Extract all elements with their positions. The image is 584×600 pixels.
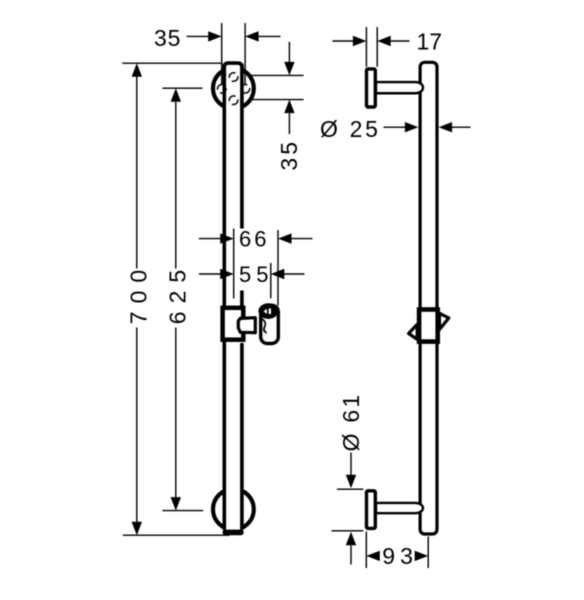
dimension diameter 61: down arrowhead — [346, 475, 356, 489]
bottom mount arm side view — [376, 503, 423, 513]
dimension 17: right leader line — [391, 40, 410, 42]
dimension 66: right extension line — [277, 230, 279, 306]
dimension 17: left arrowhead — [353, 36, 367, 46]
dimension 66: centre extension line — [233, 229, 235, 299]
dimension 35 right vertical: upper stem — [288, 42, 290, 63]
svg-text:625: 625 — [164, 262, 190, 324]
dimension 35 top: left extension line — [221, 23, 223, 84]
dimension 55: right arrowhead — [271, 269, 285, 279]
dimension diameter 25: left leader line — [384, 126, 406, 128]
dimension 55: right leader line — [284, 273, 304, 275]
svg-text:Ø 25: Ø 25 — [320, 116, 381, 142]
dimension 700: dimension line upper segment — [136, 76, 138, 269]
wall bar rail front view: rounded top cap — [224, 63, 242, 74]
top mount plate side view — [367, 69, 376, 107]
dimension 625: down arrowhead — [171, 497, 181, 511]
dimension 66: right leader line — [292, 238, 313, 240]
dimension 625: bottom extension line — [162, 510, 203, 512]
screw hole south — [229, 96, 238, 105]
dimension 17: right extension line — [376, 27, 378, 67]
dimension 35 right vertical: lower stem — [288, 113, 290, 134]
slider wedge link front view — [238, 318, 255, 333]
holder opening highlight triangle — [264, 309, 267, 315]
svg-text:55: 55 — [239, 262, 273, 287]
dimension diameter 61: up arrowhead — [346, 532, 356, 546]
dimension 35 top: left arrowhead — [208, 31, 222, 41]
dimension 35 right vertical: upper extension line — [250, 74, 304, 76]
wall bar rail front view: interior mask — [225, 63, 240, 531]
bottom mount plate side view — [367, 491, 376, 529]
dimension 35 top: left leader line — [187, 35, 210, 37]
dimension 700: dimension line lower segment — [136, 328, 138, 523]
dimension 17: left leader line — [332, 40, 353, 42]
wall bar rail front view: right edge upper segment — [240, 64, 244, 229]
dimension 93: right extension line — [427, 537, 429, 569]
svg-text:93: 93 — [382, 543, 418, 569]
slider side view lower wedge — [409, 324, 418, 339]
wall bar rail side view — [420, 62, 437, 534]
dimension 700: down arrowhead — [132, 522, 142, 536]
dimension 66: right arrowhead — [278, 233, 292, 243]
wall bar rail front view: left edge — [223, 64, 227, 530]
dimension 17: left extension line — [365, 27, 367, 67]
dimension 625: dimension line lower segment — [175, 328, 177, 498]
holder opening ellipse — [258, 303, 278, 319]
screw hole east — [241, 85, 250, 94]
dimension 700: up arrowhead — [132, 63, 142, 76]
svg-text:Ø 61: Ø 61 — [338, 393, 364, 452]
dimension 55: left arrowhead — [220, 269, 234, 279]
dimension 66: left arrowhead — [220, 233, 234, 243]
dimension diameter 61: lower stem — [350, 545, 352, 564]
dimension 700: top extension line — [122, 62, 222, 64]
dimension 700: bottom extension line — [123, 534, 230, 536]
wall bar rail front view: right edge middle segment — [240, 291, 244, 307]
dimension 625: up arrowhead — [171, 88, 181, 102]
dimension diameter 61: upper stem — [350, 453, 352, 476]
wall bar rail front view: bottom end cap — [223, 530, 244, 536]
dimension 625: dimension line upper segment — [175, 101, 177, 269]
dimension 66: left leader line — [199, 238, 221, 240]
screw hole north — [229, 73, 238, 82]
dimension diameter 25: left arrowhead — [405, 122, 419, 132]
dimension 35 top: right leader line — [259, 35, 281, 37]
dimension 625: top extension line — [162, 87, 202, 89]
top escutcheon (front view) — [213, 68, 254, 109]
dimension 93: left extension line — [365, 532, 367, 569]
slider side view body — [419, 310, 438, 342]
dimension diameter 25: right arrowhead — [439, 122, 453, 132]
dimension 35 right vertical: lower extension line — [250, 99, 304, 101]
top mount arm side view — [376, 82, 423, 93]
dimension diameter 25: right leader line — [452, 126, 470, 128]
dimension 35 right vertical: up arrowhead — [284, 100, 294, 114]
holder opening highlight bar — [269, 308, 271, 314]
svg-text:35: 35 — [154, 25, 181, 51]
holder interior contour — [261, 319, 266, 333]
wall bar rail front view: right edge lower segment — [240, 343, 244, 530]
dimension diameter 61: top extension line — [337, 488, 363, 490]
dimension 35 top: right arrowhead — [245, 31, 259, 41]
dimension 93: left arrowhead — [366, 551, 380, 561]
dimension 17: right arrowhead — [377, 36, 391, 46]
dimension 35 right vertical: down arrowhead — [284, 62, 294, 76]
slider side view upper wedge — [440, 313, 449, 329]
svg-text:35: 35 — [276, 139, 302, 171]
handle holder cylinder front view — [261, 305, 279, 343]
dimension 35 top: right extension line — [244, 23, 246, 84]
svg-text:17: 17 — [417, 29, 443, 55]
screw hole west — [218, 85, 227, 94]
svg-text:700: 700 — [126, 262, 152, 324]
slider body front view — [223, 308, 244, 340]
dimension 55: left leader line — [199, 273, 221, 275]
svg-text:66: 66 — [239, 226, 269, 251]
dimension diameter 61: bottom extension line — [332, 530, 364, 532]
dimension 55: right extension line — [270, 263, 272, 298]
bottom escutcheon (front view) — [213, 489, 254, 530]
dimension 93: right arrowhead — [415, 551, 429, 561]
